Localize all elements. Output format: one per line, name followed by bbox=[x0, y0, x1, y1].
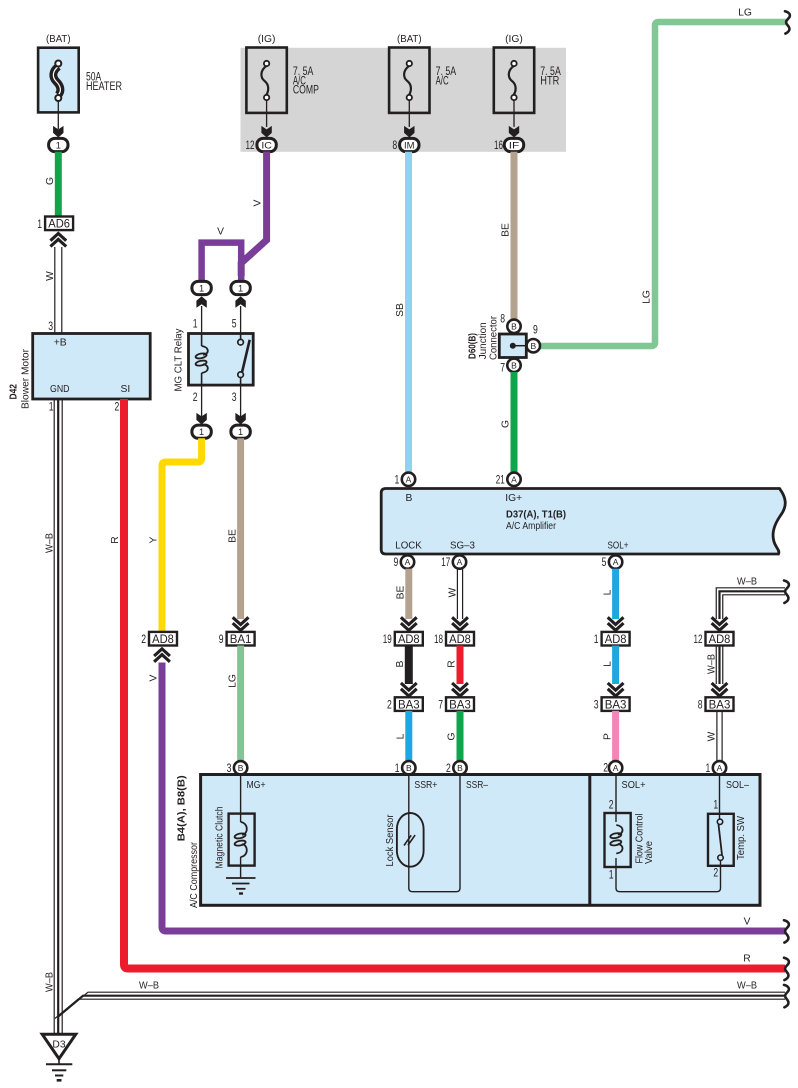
svg-text:LG: LG bbox=[738, 8, 752, 19]
wire BE tan from IF bbox=[511, 152, 518, 320]
svg-text:1: 1 bbox=[238, 427, 243, 437]
connector 3 BA3 bbox=[594, 697, 630, 711]
svg-text:MG+: MG+ bbox=[247, 780, 266, 791]
junction connector D60(B) box bbox=[499, 334, 526, 358]
wire V purple branch bbox=[202, 243, 242, 281]
chevron into 19 AD8 bbox=[401, 617, 417, 630]
svg-text:2: 2 bbox=[609, 800, 614, 812]
svg-text:IF: IF bbox=[509, 140, 520, 150]
connector 1 A (SOL-) bbox=[713, 761, 726, 774]
svg-text:LG: LG bbox=[642, 290, 653, 304]
svg-text:Blower Motor: Blower Motor bbox=[21, 348, 32, 409]
wire LG to MG+ bbox=[237, 646, 244, 762]
svg-text:SOL+: SOL+ bbox=[622, 780, 646, 791]
chevron into 9 BA1 bbox=[233, 617, 249, 630]
wire W-B trunk vertical bbox=[54, 399, 62, 1034]
svg-text:BE: BE bbox=[501, 223, 512, 237]
wire R red bbox=[457, 646, 464, 685]
connector 21 A (amp IG+) bbox=[507, 473, 520, 486]
flow control valve bbox=[605, 775, 631, 889]
svg-text:A/C Compressor: A/C Compressor bbox=[189, 842, 200, 908]
chevron into 18 AD8 bbox=[452, 617, 468, 630]
svg-text:W: W bbox=[448, 587, 459, 597]
connector 16 IF bbox=[504, 138, 523, 151]
wire W white bbox=[55, 247, 62, 334]
svg-text:G: G bbox=[45, 177, 56, 185]
svg-text:1: 1 bbox=[609, 870, 614, 882]
connector 1 (relay pin2 bottom) bbox=[192, 425, 211, 438]
torn end LG wire bbox=[785, 11, 790, 33]
svg-text:SSR–: SSR– bbox=[466, 780, 488, 791]
svg-text:A/C Amplifier: A/C Amplifier bbox=[506, 521, 556, 532]
torn end R wire bbox=[784, 958, 789, 980]
svg-text:W–B: W–B bbox=[44, 972, 55, 992]
connector 8 IM bbox=[400, 138, 419, 151]
svg-text:SG–3: SG–3 bbox=[450, 541, 475, 552]
svg-text:LG: LG bbox=[227, 674, 238, 688]
svg-text:2: 2 bbox=[193, 392, 198, 404]
temp switch bbox=[708, 775, 734, 889]
connector 1 (relay pin5 top) bbox=[231, 281, 250, 294]
connector 7 BA3 bbox=[438, 697, 474, 711]
svg-text:R: R bbox=[110, 536, 121, 543]
svg-text:(IG): (IG) bbox=[505, 34, 523, 45]
wire R red SI bbox=[124, 399, 785, 969]
svg-text:3: 3 bbox=[232, 392, 237, 404]
svg-text:B: B bbox=[530, 341, 536, 351]
svg-text:1: 1 bbox=[56, 140, 61, 150]
arrow into IF bbox=[509, 126, 519, 138]
svg-text:LOCK: LOCK bbox=[395, 541, 422, 552]
chevron into 2 BA3 bbox=[401, 683, 417, 696]
svg-text:BA3: BA3 bbox=[605, 697, 627, 711]
connector 17 A (SG-3) bbox=[453, 555, 466, 568]
svg-text:5: 5 bbox=[232, 319, 237, 331]
svg-text:12: 12 bbox=[694, 634, 703, 646]
fuse 7.5A A/C bbox=[389, 48, 429, 127]
chevron into 1 AD8 bbox=[608, 617, 624, 630]
wire G green D60 to amp bbox=[511, 372, 518, 473]
fuse 7.5A A/C COMP bbox=[246, 48, 286, 127]
svg-text:MG CLT Relay: MG CLT Relay bbox=[174, 328, 185, 392]
connector 2 B (SSR-) bbox=[453, 761, 466, 774]
A/C amplifier D37(A) T1(B) box bbox=[381, 489, 785, 555]
svg-text:W–B: W–B bbox=[706, 654, 717, 674]
svg-text:L: L bbox=[602, 661, 613, 667]
svg-text:W: W bbox=[45, 271, 56, 281]
svg-text:19: 19 bbox=[383, 634, 392, 646]
svg-text:7: 7 bbox=[438, 700, 443, 712]
svg-text:7: 7 bbox=[500, 363, 505, 375]
wire V purple from IC bbox=[241, 152, 266, 277]
ground D3 bbox=[42, 1034, 76, 1080]
svg-text:B: B bbox=[406, 763, 412, 773]
svg-text:AD8: AD8 bbox=[449, 632, 471, 646]
wire L blue (SOL+) bbox=[612, 569, 619, 619]
connector 8 BA3 bbox=[698, 697, 734, 711]
svg-text:2: 2 bbox=[713, 868, 718, 880]
connector 9 A (LOCK) bbox=[401, 555, 414, 568]
svg-text:5: 5 bbox=[602, 557, 607, 569]
svg-text:V: V bbox=[149, 674, 160, 681]
svg-text:BA3: BA3 bbox=[398, 697, 420, 711]
wire G green bbox=[55, 152, 62, 217]
svg-text:1: 1 bbox=[713, 800, 718, 812]
connector 2 AD8 bbox=[141, 632, 177, 646]
svg-text:1: 1 bbox=[395, 474, 400, 486]
svg-text:B: B bbox=[395, 660, 406, 667]
svg-text:2: 2 bbox=[446, 763, 451, 775]
connector 2 A (SOL+) bbox=[609, 761, 622, 774]
svg-text:B4(A), B8(B): B4(A), B8(B) bbox=[177, 775, 188, 841]
svg-text:BE: BE bbox=[227, 529, 238, 543]
connector 1 (relay pin1 top) bbox=[192, 281, 211, 294]
svg-text:Temp. SW: Temp. SW bbox=[736, 816, 747, 860]
connector 1 AD8 bbox=[594, 632, 630, 646]
svg-text:16: 16 bbox=[494, 140, 503, 152]
arrow down from pin3 bbox=[235, 413, 245, 425]
connector 5 A (SOL+) bbox=[609, 555, 622, 568]
svg-text:Y: Y bbox=[149, 536, 160, 543]
chevron into 8 BA3 bbox=[712, 683, 728, 696]
wire fuse to connector bbox=[57, 101, 59, 129]
svg-text:8: 8 bbox=[392, 140, 397, 152]
svg-text:R: R bbox=[447, 660, 458, 667]
svg-text:1: 1 bbox=[199, 283, 204, 293]
svg-text:2: 2 bbox=[115, 402, 120, 414]
svg-text:HEATER: HEATER bbox=[86, 81, 122, 93]
svg-text:W–B: W–B bbox=[737, 577, 757, 588]
svg-text:1: 1 bbox=[594, 634, 599, 646]
svg-text:W–B: W–B bbox=[139, 981, 159, 992]
svg-text:B: B bbox=[457, 763, 463, 773]
svg-text:W–B: W–B bbox=[44, 533, 55, 553]
svg-text:BE: BE bbox=[396, 586, 407, 600]
wire W white (SG-3) bbox=[457, 569, 462, 619]
fuse 50A HEATER bbox=[38, 48, 79, 113]
fuse 7.5A HTR bbox=[494, 48, 534, 127]
svg-text:D37(A), T1(B): D37(A), T1(B) bbox=[506, 510, 566, 521]
connector B pin 8 bbox=[507, 320, 520, 333]
svg-text:R: R bbox=[743, 954, 750, 965]
svg-text:A: A bbox=[717, 763, 723, 773]
svg-text:AD8: AD8 bbox=[152, 632, 174, 646]
wire B black bbox=[405, 646, 413, 685]
svg-text:B: B bbox=[511, 321, 517, 331]
arrow down from pin2 bbox=[196, 413, 206, 425]
svg-text:A: A bbox=[511, 474, 517, 484]
svg-text:V: V bbox=[253, 199, 264, 206]
connector 19 AD8 bbox=[383, 632, 423, 646]
svg-text:A: A bbox=[613, 763, 619, 773]
svg-text:B: B bbox=[406, 493, 413, 504]
wire SB skyblue bbox=[405, 152, 412, 473]
arrow into connector bbox=[53, 126, 63, 138]
svg-text:+B: +B bbox=[54, 338, 67, 349]
svg-text:1: 1 bbox=[37, 219, 42, 231]
connector 1 AD6 bbox=[37, 217, 73, 231]
wire relay pin3 down bbox=[240, 385, 242, 424]
wire L blue lower bbox=[612, 646, 619, 685]
connector B pin 9 bbox=[527, 339, 540, 352]
svg-text:A/C: A/C bbox=[436, 76, 449, 88]
connector 18 AD8 bbox=[434, 632, 474, 646]
svg-text:Magnetic Clutch: Magnetic Clutch bbox=[215, 806, 226, 868]
svg-text:9: 9 bbox=[533, 325, 538, 337]
svg-text:12: 12 bbox=[246, 140, 255, 152]
chevron into 7 BA3 bbox=[452, 683, 468, 696]
svg-text:AD6: AD6 bbox=[48, 217, 70, 231]
svg-text:V: V bbox=[217, 227, 224, 238]
svg-text:Connector: Connector bbox=[488, 315, 499, 360]
wire LG light green bbox=[540, 22, 786, 346]
relay MG CLT box bbox=[189, 334, 254, 386]
svg-text:Lock Sensor: Lock Sensor bbox=[385, 814, 396, 867]
svg-text:1: 1 bbox=[238, 283, 243, 293]
svg-text:SOL–: SOL– bbox=[726, 780, 749, 791]
svg-text:B: B bbox=[511, 360, 517, 370]
connector 1 (heater fuse) bbox=[49, 138, 68, 151]
torn end V wire bbox=[784, 920, 789, 942]
chevron into 3 BA3 bbox=[608, 683, 624, 696]
svg-text:3: 3 bbox=[227, 763, 232, 775]
svg-text:SI: SI bbox=[121, 384, 131, 395]
svg-text:8: 8 bbox=[698, 700, 703, 712]
torn end W-B elbow bbox=[784, 581, 789, 603]
svg-text:(IG): (IG) bbox=[258, 34, 276, 45]
blower motor D42 box bbox=[33, 334, 151, 400]
svg-text:2: 2 bbox=[387, 700, 392, 712]
svg-text:B: B bbox=[238, 763, 244, 773]
wire W-B bottom horizontal bbox=[55, 992, 785, 1018]
svg-text:AD8: AD8 bbox=[709, 632, 731, 646]
svg-text:3: 3 bbox=[48, 321, 53, 333]
wire W-B vertical bbox=[716, 646, 723, 685]
lock sensor bbox=[397, 775, 460, 892]
svg-text:9: 9 bbox=[219, 634, 224, 646]
svg-text:A: A bbox=[406, 474, 412, 484]
svg-text:IM: IM bbox=[404, 140, 415, 150]
svg-text:G: G bbox=[501, 420, 512, 428]
connector 1 B (SSR+) bbox=[402, 761, 415, 774]
torn end W-B bottom bbox=[784, 985, 789, 1007]
wire relay pin2 down bbox=[201, 385, 203, 424]
connector 1 (relay pin3 bottom) bbox=[231, 425, 250, 438]
svg-text:D3: D3 bbox=[52, 1040, 65, 1051]
svg-text:21: 21 bbox=[496, 474, 505, 486]
arrow up to connector pin1 bbox=[196, 296, 206, 308]
svg-text:1: 1 bbox=[706, 763, 711, 775]
connector 2 BA3 bbox=[387, 697, 423, 711]
chevron up below AD6 bbox=[50, 234, 66, 247]
wire V purple long bbox=[162, 663, 785, 932]
wire P pink bbox=[612, 711, 619, 761]
svg-text:1: 1 bbox=[395, 763, 400, 775]
wire G green (SSR-) bbox=[457, 711, 464, 761]
svg-text:HTR: HTR bbox=[540, 76, 559, 88]
A/C compressor box bbox=[201, 775, 760, 906]
svg-text:1: 1 bbox=[193, 319, 198, 331]
svg-text:18: 18 bbox=[434, 634, 443, 646]
svg-text:L: L bbox=[396, 733, 407, 739]
connector B pin 7 bbox=[507, 359, 520, 372]
wire L blue (SSR+) bbox=[405, 711, 412, 761]
arrow into IM bbox=[404, 126, 414, 138]
svg-text:17: 17 bbox=[441, 557, 450, 569]
svg-text:V: V bbox=[744, 917, 751, 928]
svg-text:COMP: COMP bbox=[293, 85, 319, 97]
wire Y yellow bbox=[162, 438, 202, 632]
svg-text:9: 9 bbox=[394, 557, 399, 569]
svg-text:SSR+: SSR+ bbox=[414, 780, 437, 791]
svg-text:2: 2 bbox=[603, 762, 608, 774]
svg-text:BA3: BA3 bbox=[449, 697, 471, 711]
svg-text:A: A bbox=[405, 557, 411, 567]
connector 3 B (MG+) bbox=[234, 761, 247, 774]
svg-text:GND: GND bbox=[50, 384, 70, 395]
svg-text:(BAT): (BAT) bbox=[397, 34, 422, 45]
svg-text:W: W bbox=[707, 731, 718, 741]
wire relay pin1 up bbox=[201, 306, 203, 334]
svg-text:SB: SB bbox=[395, 303, 406, 317]
svg-text:BA1: BA1 bbox=[230, 632, 252, 646]
svg-text:BA3: BA3 bbox=[709, 697, 731, 711]
chevron up below 2 AD8 bbox=[154, 649, 170, 662]
svg-text:1: 1 bbox=[49, 402, 54, 414]
svg-text:AD8: AD8 bbox=[605, 632, 627, 646]
wire BE tan (relay) bbox=[237, 438, 244, 619]
gray fuse-block background band bbox=[241, 48, 567, 152]
svg-text:SOL+: SOL+ bbox=[608, 541, 629, 552]
svg-text:A: A bbox=[457, 557, 463, 567]
svg-text:8: 8 bbox=[500, 314, 505, 326]
svg-text:L: L bbox=[602, 589, 613, 595]
svg-text:G: G bbox=[447, 732, 458, 740]
junction dot and link bbox=[510, 343, 516, 349]
svg-text:IC: IC bbox=[261, 140, 272, 150]
svg-text:P: P bbox=[602, 733, 613, 740]
wire W white (SOL-) bbox=[717, 711, 722, 761]
svg-text:A: A bbox=[613, 557, 619, 567]
svg-text:(BAT): (BAT) bbox=[46, 34, 71, 45]
connector 9 BA1 bbox=[219, 632, 255, 646]
magnetic clutch bbox=[226, 775, 256, 894]
wire W-B elbow from right bbox=[716, 588, 785, 619]
wire valve to temp sw bbox=[616, 888, 721, 892]
svg-text:D42: D42 bbox=[8, 384, 20, 400]
chevron into 12 AD8 bbox=[712, 617, 728, 630]
arrow into IC bbox=[261, 126, 271, 138]
wire BE tan (LOCK) bbox=[405, 569, 412, 619]
connector 12 IC bbox=[257, 138, 276, 151]
svg-text:IG+: IG+ bbox=[505, 493, 522, 504]
svg-text:3: 3 bbox=[594, 700, 599, 712]
connector 12 AD8 bbox=[694, 632, 734, 646]
svg-text:1: 1 bbox=[199, 427, 204, 437]
svg-text:AD8: AD8 bbox=[398, 632, 420, 646]
wire relay pin5 up bbox=[240, 306, 242, 334]
svg-text:Junction: Junction bbox=[478, 322, 489, 359]
arrow up to connector pin5 bbox=[235, 296, 245, 308]
svg-text:2: 2 bbox=[141, 634, 146, 646]
connector 1 A (amp B) bbox=[402, 473, 415, 486]
svg-text:Valve: Valve bbox=[644, 841, 655, 864]
svg-text:W–B: W–B bbox=[737, 981, 757, 992]
